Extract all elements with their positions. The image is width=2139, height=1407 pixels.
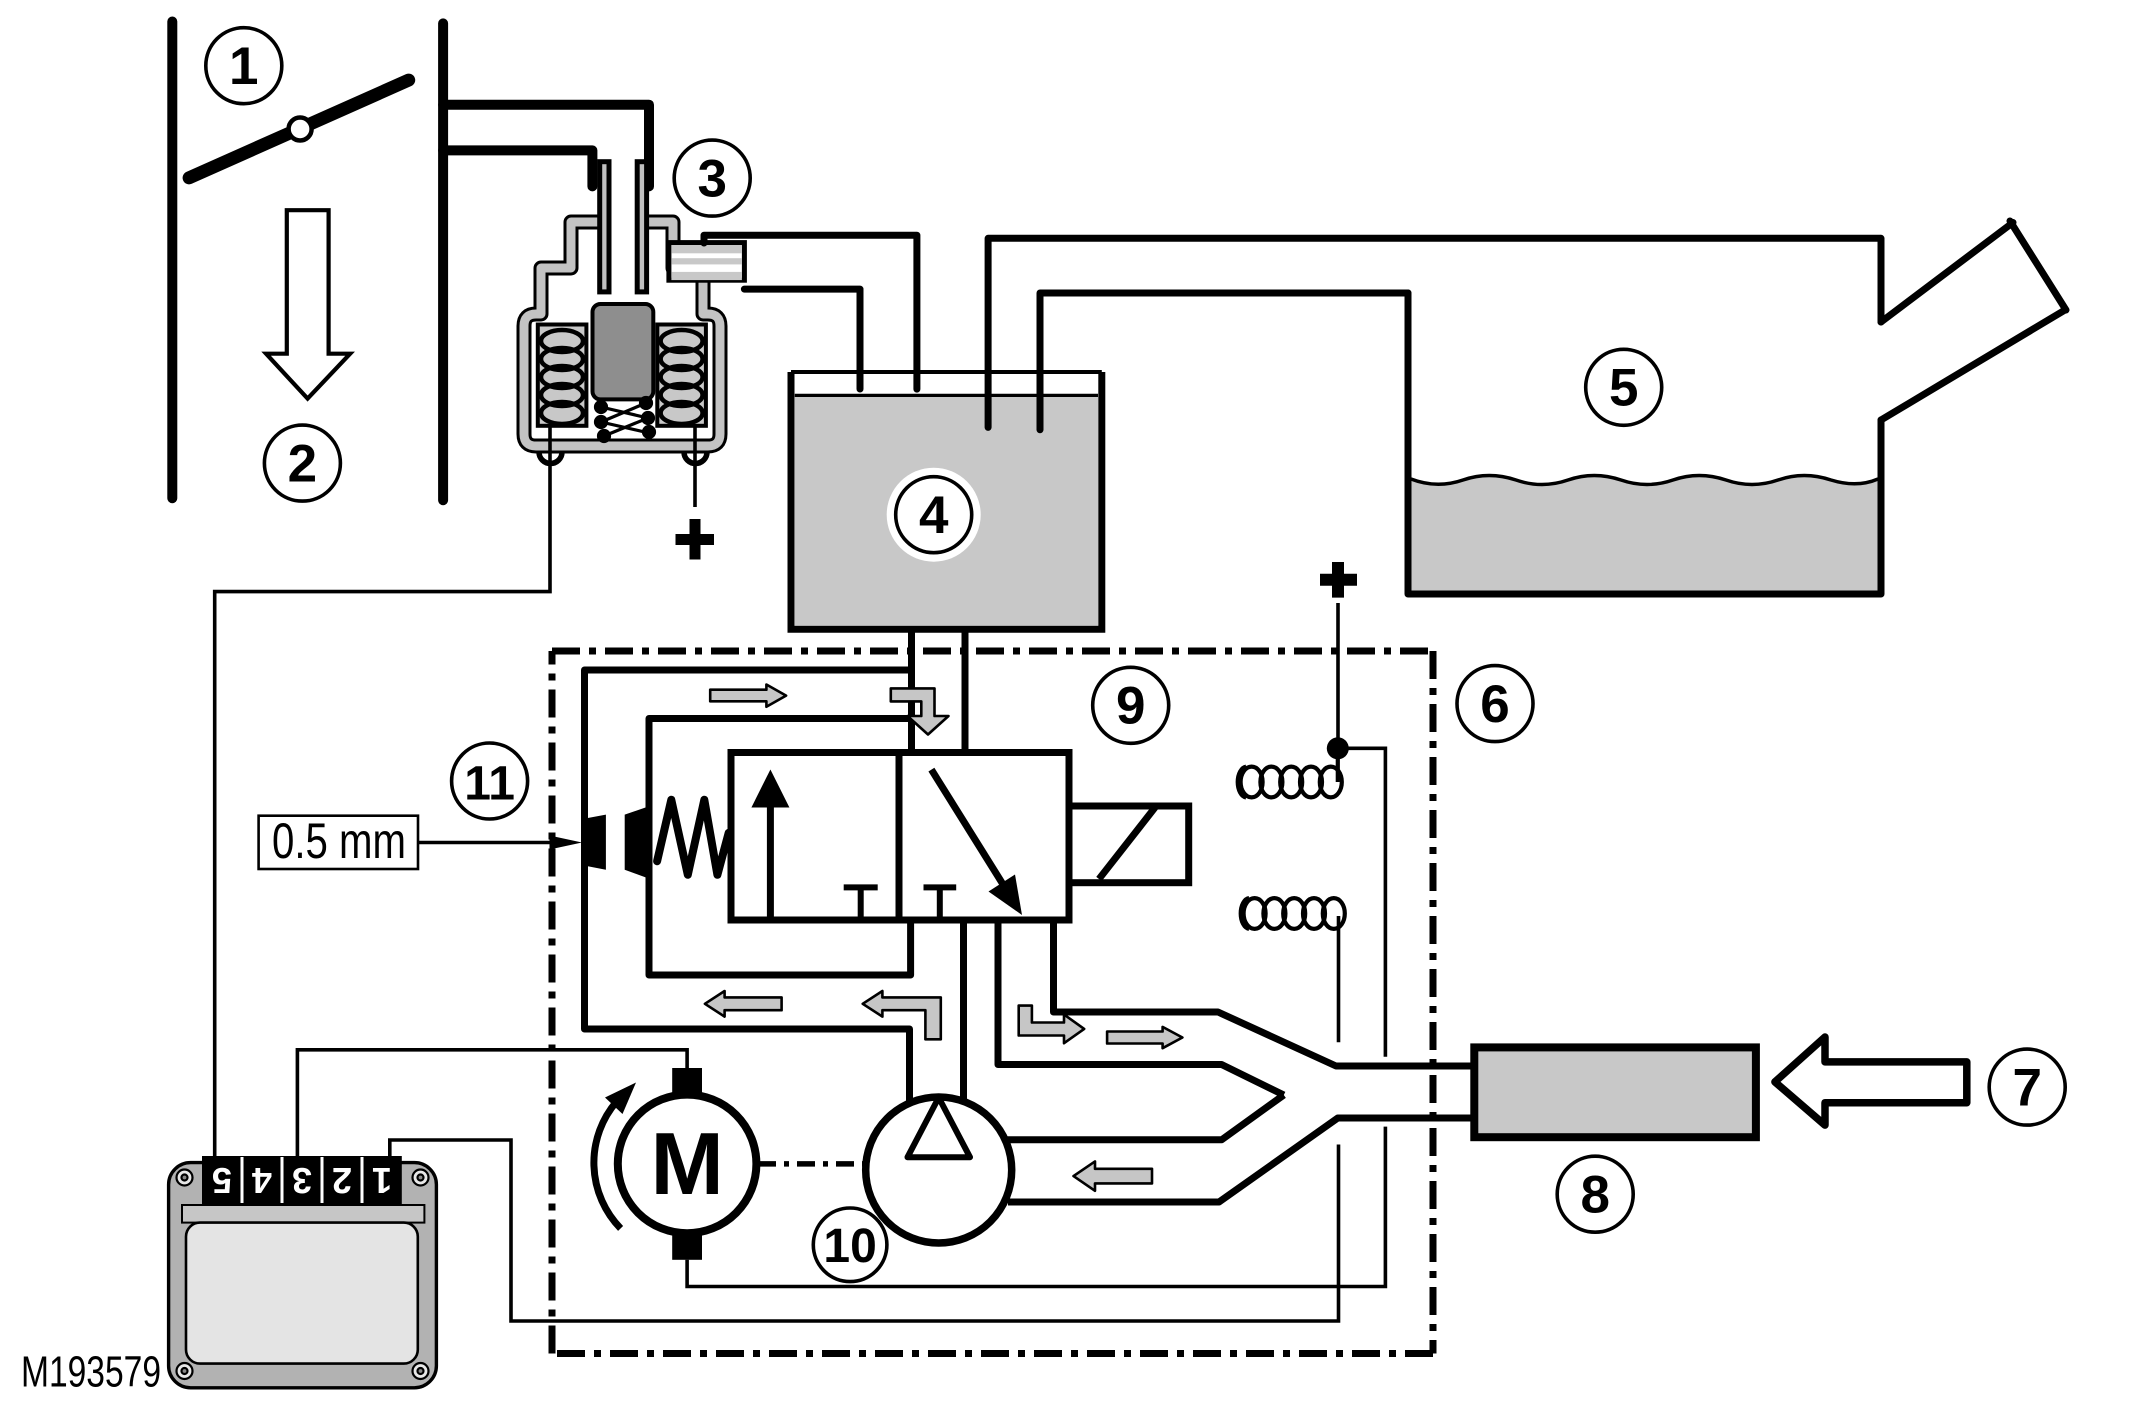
- canister liquid fill: [795, 395, 1098, 625]
- SEC_COMP3: [215, 140, 751, 1158]
- svg-text:11: 11: [464, 757, 515, 810]
- pipe 3 canister to tank top: [988, 238, 1880, 427]
- pump housing 3 stepped shell: [524, 222, 720, 446]
- SEC_TANK: [1408, 221, 2066, 594]
- SEC_ECU: [169, 1156, 437, 1388]
- lower branch pipe inner wall: [1005, 1095, 1284, 1140]
- callout 4: [887, 468, 981, 562]
- callout 3: [674, 140, 750, 216]
- spring well left: [538, 325, 587, 426]
- tank liquid surface line: [1411, 476, 1878, 485]
- piston return spring: [596, 398, 655, 442]
- SEC_COILS: [390, 562, 1386, 1321]
- wire from left terminal to ECU pin 5: [215, 426, 550, 1158]
- svg-text:M193579: M193579: [21, 1348, 161, 1397]
- pipe to component 3 lower wall: [443, 150, 592, 186]
- connector pin numbers (inverted): [212, 1160, 392, 1201]
- coil spring left: [541, 330, 583, 424]
- pipe canister to valve (right port): [962, 629, 969, 753]
- terminal hook right: [684, 452, 707, 464]
- ECU module shell: [169, 1163, 437, 1388]
- svg-text:7: 7: [2012, 1058, 2041, 1117]
- tank filler neck upper line: [1881, 223, 2013, 323]
- callout 5: [1586, 349, 1662, 425]
- flow arrow elbow down (into valve): [891, 688, 949, 734]
- motor brush top: [672, 1068, 702, 1095]
- wire wall left: [167, 22, 177, 499]
- svg-text:9: 9: [1116, 677, 1145, 736]
- callout 2: [264, 425, 340, 501]
- lower branch pipe outer wall: [1008, 1118, 1474, 1202]
- canister 4 body: [791, 372, 1102, 629]
- svg-text:1: 1: [229, 37, 258, 96]
- pipe valve to upper branch inner wall: [998, 920, 1284, 1095]
- tank 5 shell: [1408, 238, 1881, 594]
- svg-text:5: 5: [1609, 359, 1638, 418]
- pipe to component 3 upper wall: [443, 105, 649, 187]
- svg-text:4: 4: [252, 1160, 272, 1201]
- gap leader arrow: [418, 836, 582, 850]
- poppet seat left half: [588, 815, 606, 870]
- SEC_MOTORPUMP: [297, 1050, 1011, 1282]
- flow arrow elbow left (from valve): [863, 991, 941, 1039]
- svg-text:2: 2: [288, 434, 317, 493]
- plus terminal component 3: [676, 519, 715, 560]
- pipe 1 from component 3 to canister: [744, 289, 860, 389]
- callout 6: [1457, 666, 1533, 742]
- pump triangle symbol: [908, 1098, 971, 1158]
- svg-text:3: 3: [697, 149, 726, 208]
- callout 8: [1557, 1156, 1633, 1232]
- pump circle: [866, 1097, 1012, 1243]
- flap valve 1: [189, 80, 409, 178]
- valve cell divider: [896, 753, 903, 921]
- pipe valve to pump: [960, 920, 967, 1101]
- junction dot: [1327, 737, 1349, 759]
- air intake arrow 7: [1775, 1037, 1967, 1125]
- ECU screws: [177, 1170, 429, 1380]
- valve diagonal flow arrow (energized path): [931, 770, 1022, 915]
- callout 1: [206, 28, 282, 104]
- diaphragm tube: [600, 162, 647, 292]
- svg-text:1: 1: [372, 1160, 392, 1201]
- flow arrow right (top loop): [710, 685, 786, 707]
- tank filler neck cap: [2010, 221, 2066, 310]
- solenoid actuator box: [1069, 806, 1189, 883]
- flow arrow left (lower branch): [1074, 1161, 1153, 1190]
- SEC_CANISTER: [704, 235, 1880, 629]
- flow arrow 2 (hollow down arrow): [266, 210, 350, 398]
- poppet seat right half: [625, 807, 648, 879]
- flap pivot: [289, 118, 312, 141]
- wire wall right: [438, 23, 448, 500]
- svg-text:4: 4: [919, 486, 949, 545]
- pump module boundary 6 (dash-dot box): [552, 651, 1433, 1354]
- wire ECU pin 3 to motor brush: [297, 1050, 687, 1158]
- ECU face panel: [186, 1223, 418, 1364]
- pipe canister to valve (left port): [908, 629, 915, 753]
- solenoid coil upper: [1238, 752, 1342, 797]
- svg-text:10: 10: [823, 1220, 876, 1273]
- spring well right: [657, 325, 706, 426]
- svg-text:6: 6: [1480, 675, 1509, 734]
- callout 11: [452, 743, 528, 819]
- gap label 0.5 mm: [259, 813, 418, 869]
- valve port T right: [924, 887, 957, 918]
- ECU top band: [182, 1205, 424, 1223]
- svg-text:5: 5: [212, 1160, 232, 1201]
- pipe 4 canister to tank left wall: [1040, 293, 1408, 430]
- svg-text:2: 2: [332, 1160, 352, 1201]
- svg-text:3: 3: [292, 1160, 312, 1201]
- solenoid coil lower: [1241, 898, 1345, 929]
- filter 8: [1474, 1047, 1756, 1137]
- svg-text:8: 8: [1580, 1166, 1609, 1225]
- terminal hook left: [539, 452, 562, 464]
- motor-pump shaft (dash-dot): [758, 1161, 864, 1167]
- tank filler neck lower line: [1881, 310, 2065, 420]
- plus supply terminal: [1320, 562, 1357, 598]
- striped port connector: [669, 243, 745, 281]
- recirculation outer loop pipe: [585, 670, 912, 1103]
- valve up arrow (open position): [751, 770, 789, 919]
- canister fill level line: [795, 394, 1098, 397]
- SEC_ARROWS: [705, 685, 1183, 1191]
- valve body 9 outline: [731, 753, 1069, 921]
- connector pin separators: [242, 1157, 362, 1203]
- svg-text:0.5 mm: 0.5 mm: [272, 813, 406, 869]
- recirculation inner loop pipe: [649, 719, 912, 976]
- motor 10 circle: [618, 1095, 757, 1234]
- valve return spring: [657, 800, 729, 875]
- pipe 2 into canister: [704, 235, 917, 389]
- piston: [593, 304, 654, 399]
- wire plus to junction: [1336, 603, 1340, 740]
- valve port T left: [844, 887, 878, 918]
- svg-text:M: M: [650, 1114, 723, 1213]
- SEC_LEFT: [172, 22, 649, 502]
- motor brush bottom: [672, 1234, 702, 1260]
- coil spring right: [661, 330, 703, 424]
- motor rotation arrow: [594, 1083, 636, 1229]
- wire lower coil to ECU pin 1: [390, 916, 1339, 1321]
- SEC_YPIPE: [1005, 1037, 2065, 1232]
- SEC_LABELS: [21, 1348, 161, 1397]
- wire junction to motor supply: [687, 748, 1385, 1286]
- flow arrow elbow right (valve outlet): [1019, 1006, 1084, 1044]
- wire from right terminal: [693, 426, 697, 507]
- ECU connector block: [202, 1156, 402, 1204]
- SEC_VALVE: [259, 629, 1475, 1103]
- callout 10: [813, 1208, 887, 1282]
- tank liquid fill: [1411, 476, 1878, 592]
- SEC_BOX6: [552, 651, 1533, 1354]
- callout 7: [1989, 1049, 2065, 1125]
- flow arrow right (upper branch): [1107, 1027, 1182, 1048]
- callout 9: [1093, 667, 1169, 743]
- pipe valve to upper branch outer wall: [1054, 920, 1475, 1066]
- flow arrow left (bottom loop): [705, 991, 782, 1017]
